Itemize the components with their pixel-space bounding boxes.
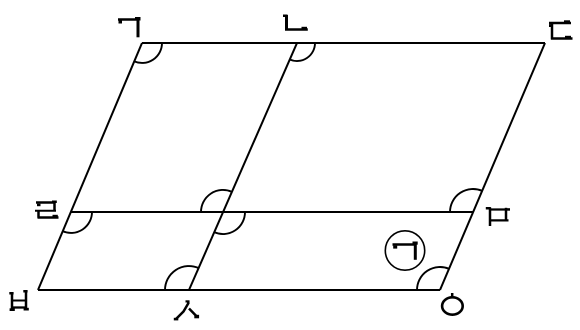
angle arc at vertex A: [134, 43, 162, 63]
angle arc at vertex H: [165, 266, 198, 290]
angle arc at vertex I: [417, 267, 449, 290]
label digeut (vertex C): [549, 20, 573, 39]
label bieup (vertex G): [9, 290, 29, 311]
angle arc at vertex F: [450, 189, 482, 212]
label mieum (point F): [486, 207, 510, 226]
angle arc upper-left at intersection E: [201, 190, 232, 212]
wire top edge (vertex A to C): [142, 42, 545, 44]
label siot (point H): [174, 300, 199, 320]
wire right edge (vertex C to I): [440, 43, 545, 290]
label rieul (point D): [35, 201, 59, 218]
label giyeok (vertex A): [118, 17, 141, 37]
label ieung (vertex I): [442, 293, 463, 315]
label nieun (point B): [283, 15, 308, 31]
wire slanted transversal (B to H): [189, 43, 297, 290]
circled giyeok answer mark: [385, 231, 424, 270]
wire left edge (vertex A to G): [38, 43, 142, 290]
wire middle horizontal (D to F): [71, 211, 473, 213]
angle arc at vertex D: [63, 212, 92, 233]
angle arc lower-right at intersection E: [214, 212, 245, 234]
wire bottom edge (vertex G to I): [38, 289, 440, 291]
angle arc at vertex B: [290, 43, 315, 61]
